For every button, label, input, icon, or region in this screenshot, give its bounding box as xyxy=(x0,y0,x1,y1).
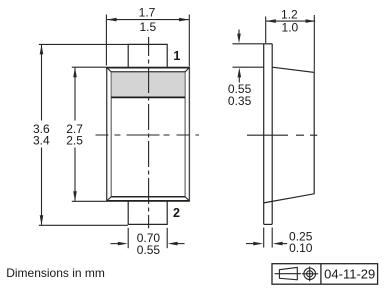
front view: corner chamfer top-left xyxy=(107,68,112,72)
dim 3.6/3.4 bottom arrowhead xyxy=(40,215,44,225)
projection symbol: circle crosshair horizontal xyxy=(302,273,318,275)
dim 1.7/1.5 dimension line xyxy=(107,19,189,21)
dim 1.7/1.5 left extension line xyxy=(105,15,107,66)
front view: band top edge xyxy=(111,71,185,73)
cathode band (grey) xyxy=(112,72,185,97)
dim 1.2/1.0 left extension line xyxy=(265,17,267,44)
dim 1.2/1.0 dimension line xyxy=(266,20,315,22)
front view vertical centerline xyxy=(148,37,150,228)
dim 2.7/2.5 bottom arrowhead xyxy=(73,191,77,201)
dim 3.6/3.4 top arrowhead xyxy=(40,45,44,55)
svg-text:0.55: 0.55 xyxy=(137,243,161,257)
dim 3.6/3.4 dimension line lower segment xyxy=(41,148,43,225)
side view horizontal centerline xyxy=(247,134,317,136)
front view: corner chamfer top-right xyxy=(185,68,189,72)
svg-text:Dimensions in mm: Dimensions in mm xyxy=(6,266,105,280)
dim 0.70/0.55 left extension line xyxy=(127,228,129,248)
dim 0.70/0.55 right extension line xyxy=(166,228,168,248)
dim 0.25/0.10 right arrow xyxy=(273,242,287,246)
svg-text:1.2: 1.2 xyxy=(281,7,298,21)
svg-text:1.0: 1.0 xyxy=(282,21,299,35)
svg-text:0.35: 0.35 xyxy=(228,94,252,108)
side view: lead strip left edge xyxy=(263,44,265,225)
dim 0.25/0.10 left arrow xyxy=(246,242,263,246)
front view: body outer outline xyxy=(107,68,190,201)
pin 1 lead (top tab) xyxy=(128,44,167,67)
dim 3.6/3.4 bottom extension line xyxy=(39,224,128,226)
dim 1.7/1.5 right extension line xyxy=(188,15,190,67)
dim 2.7/2.5 top arrowhead xyxy=(73,67,77,77)
dim 0.55/0.35 down arrow xyxy=(237,30,241,44)
side view: lead strip top edge xyxy=(264,43,273,45)
svg-text:1.5: 1.5 xyxy=(139,20,156,34)
dim 2.7/2.5 bottom extension line xyxy=(72,200,107,202)
front view: corner chamfer bottom-left xyxy=(107,197,112,201)
dim 0.70/0.55 left arrow xyxy=(111,242,128,246)
dim 2.7/2.5 dimension line upper segment xyxy=(74,68,76,121)
dim 1.2/1.0 right extension line xyxy=(313,15,315,72)
dim 0.55/0.35 lower extension line xyxy=(233,66,265,68)
dim 1.7/1.5 left arrowhead xyxy=(107,18,117,22)
side view: lead strip bottom edge xyxy=(264,223,273,225)
dim 1.2/1.0 right arrowhead xyxy=(306,19,316,23)
dim 0.70/0.55 right arrow xyxy=(168,242,185,246)
cathode band bottom edge xyxy=(111,96,185,98)
front view: body outer bottom edge xyxy=(107,200,190,202)
front view: body inner outline xyxy=(111,72,185,197)
dim 3.6/3.4 dimension line upper segment xyxy=(41,45,43,121)
side view: lead strip right edge xyxy=(271,44,273,225)
front view horizontal centerline xyxy=(96,134,200,136)
dim 2.7/2.5 top extension line xyxy=(72,66,107,68)
dim 1.7/1.5 right arrowhead xyxy=(179,18,189,22)
dim 2.7/2.5 dimension line lower segment xyxy=(74,148,76,201)
svg-text:1.7: 1.7 xyxy=(139,6,156,20)
svg-text:2: 2 xyxy=(173,206,180,220)
svg-text:0.10: 0.10 xyxy=(289,241,313,255)
projection symbol: circle crosshair vertical xyxy=(309,267,311,282)
dim 0.55/0.35 upper extension line xyxy=(233,43,264,45)
dim 0.25/0.10 right extension line xyxy=(271,228,273,248)
projection symbol: inner circle xyxy=(307,271,313,277)
front view: body inner bottom edge xyxy=(111,196,185,198)
projection symbol: cone axis xyxy=(275,273,301,275)
side view: body profile xyxy=(264,67,315,203)
dim 3.6/3.4 top extension line xyxy=(39,43,128,45)
projection symbol: truncated cone (trapezoid) xyxy=(279,267,297,279)
dim 0.55/0.35 up arrow xyxy=(238,68,242,83)
svg-text:3.4: 3.4 xyxy=(33,134,50,148)
svg-text:1: 1 xyxy=(173,49,180,63)
svg-text:04-11-29: 04-11-29 xyxy=(324,267,375,282)
dim 0.25/0.10 left extension line xyxy=(263,228,265,248)
title block divider xyxy=(320,264,322,285)
projection symbol: outer circle xyxy=(304,268,316,280)
front view: body outer top edge xyxy=(107,67,190,69)
title block box xyxy=(272,264,378,285)
front view: corner chamfer bottom-right xyxy=(185,197,189,201)
svg-text:2.5: 2.5 xyxy=(66,134,83,148)
pin 2 lead (bottom tab) xyxy=(128,201,167,224)
dim 1.2/1.0 left arrowhead xyxy=(266,19,276,23)
